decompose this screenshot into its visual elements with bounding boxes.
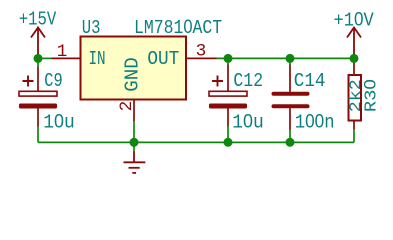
svg-text:OUT: OUT [147, 48, 179, 70]
wire: U3 pin2 to bottom junction [133, 121, 135, 142]
node junction GND/pin2 [130, 138, 139, 147]
svg-text:100n: 100n [295, 112, 335, 134]
svg-text:R30: R30 [361, 79, 380, 112]
regulator U3 body [81, 37, 187, 100]
resistor R30 [349, 63, 362, 130]
ground [124, 152, 146, 173]
wire: C12 bottom pin to bottom rail [227, 127, 229, 143]
svg-text:2: 2 [117, 101, 137, 112]
node junction C12 bottom [224, 138, 233, 147]
svg-text:LM7810ACT: LM7810ACT [134, 17, 222, 39]
svg-text:10u: 10u [43, 112, 75, 134]
node junction +10V/R30 [350, 54, 359, 63]
power flag +15V [31, 28, 45, 59]
svg-text:C9: C9 [44, 70, 62, 92]
capacitor C9 (polarized) [19, 67, 57, 127]
pin 1 of U3 [52, 57, 81, 59]
capacitor C12 (polarized) [209, 65, 247, 127]
wire: C14 bottom pin to bottom rail [289, 130, 291, 142]
power flag +10V [347, 28, 361, 59]
svg-text:+15V: +15V [19, 9, 57, 31]
node junction C14 bottom [286, 138, 295, 147]
pin 3 of U3 [186, 57, 217, 59]
capacitor C14 [274, 65, 308, 131]
wire: +10V junction down to R30 [353, 58, 355, 62]
svg-text:3: 3 [196, 42, 207, 62]
wire: top-left junction to U3 pin1 [38, 57, 52, 59]
svg-text:C14: C14 [294, 70, 326, 92]
svg-text:U3: U3 [82, 17, 101, 39]
wire: bottom junction to ground symbol stub [133, 142, 135, 151]
svg-text:IN: IN [89, 48, 106, 70]
svg-text:+10V: +10V [334, 10, 375, 32]
wire: R30 bottom to bottom rail [353, 129, 355, 142]
pin 2 of U3 [133, 100, 135, 122]
svg-text:1: 1 [57, 42, 68, 62]
svg-text:10u: 10u [232, 112, 263, 134]
wire: U3 pin3 to +10V junction [217, 57, 355, 59]
wire: junction down to C9 top pin [37, 58, 39, 66]
wire: C9 bottom pin to bottom rail [37, 127, 39, 143]
wire: top junction down to C12 [227, 58, 229, 64]
svg-text:C12: C12 [233, 70, 263, 92]
wire: bottom rail [38, 141, 354, 143]
node junction C14 top [286, 54, 295, 63]
node junction pin3/C12 [224, 54, 233, 63]
wire: top junction down to C14 [289, 58, 291, 64]
svg-text:GND: GND [121, 57, 143, 91]
node junction +15V/C9/pin1 [34, 54, 43, 63]
